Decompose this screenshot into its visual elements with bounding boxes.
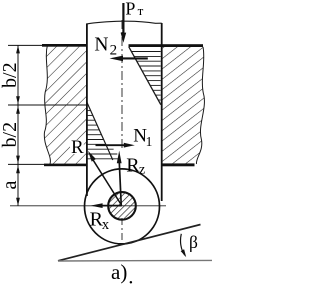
wall right break edge xyxy=(196,47,204,164)
svg-text:b/2: b/2 xyxy=(0,122,21,148)
dimension arrows mid xyxy=(16,96,20,104)
wall right bottom edge bar xyxy=(161,163,195,166)
svg-text:a: a xyxy=(0,181,21,190)
svg-text:2: 2 xyxy=(110,42,118,58)
svg-text:β: β xyxy=(189,232,198,252)
pressure diagram N2 top bar xyxy=(129,44,204,47)
wall left bottom edge bar xyxy=(44,164,87,167)
force N2 arrow xyxy=(121,57,148,59)
axle circle hatched xyxy=(108,192,136,220)
label R background xyxy=(70,140,84,154)
force Rx arrow xyxy=(99,205,122,207)
lever right edge xyxy=(161,23,163,201)
lever top break edge xyxy=(87,21,162,24)
svg-text:1: 1 xyxy=(146,134,153,149)
dimension arrow top up xyxy=(16,45,20,53)
pressure diagram N2 hatch xyxy=(132,52,161,101)
pressure diagram N1 hatch xyxy=(87,111,120,159)
svg-text:z: z xyxy=(139,162,145,177)
wall right block hatched body xyxy=(161,47,204,164)
axis centerline vertical xyxy=(121,20,123,151)
lever left edge xyxy=(86,24,88,197)
dimension extension mid xyxy=(8,104,87,106)
svg-text:P: P xyxy=(125,0,135,19)
force Rz arrow xyxy=(119,160,121,205)
pressure diagram N2 hypotenuse xyxy=(129,47,161,105)
ground line xyxy=(58,259,212,262)
svg-text:а): а) xyxy=(111,260,127,284)
angle beta arc arrow xyxy=(181,234,185,256)
svg-text:R: R xyxy=(71,137,84,158)
svg-text:x: x xyxy=(102,217,110,233)
svg-text:N: N xyxy=(94,34,108,55)
incline line xyxy=(58,225,201,261)
pressure diagram N1 hypotenuse xyxy=(87,102,113,160)
force N1 arrow xyxy=(96,144,126,146)
dimension line vertical xyxy=(17,45,19,205)
axis centerline horizontal / extension a xyxy=(10,205,166,207)
wheel circle xyxy=(85,169,160,244)
svg-text:.: . xyxy=(128,265,133,285)
wall left block hatched body xyxy=(44,45,86,164)
dimension arrow bottom down xyxy=(16,198,20,206)
svg-text:b/2: b/2 xyxy=(0,62,21,88)
wall left break edge xyxy=(44,45,50,164)
dimension extension top xyxy=(8,44,44,46)
axis centerline vertical lower xyxy=(121,218,123,244)
force R arrow xyxy=(93,160,122,205)
wall left top edge bar xyxy=(42,44,87,47)
dimension arrows low xyxy=(16,156,20,164)
svg-text:т: т xyxy=(138,3,144,18)
force P arrow xyxy=(122,3,124,34)
dimension extension low xyxy=(8,163,48,165)
